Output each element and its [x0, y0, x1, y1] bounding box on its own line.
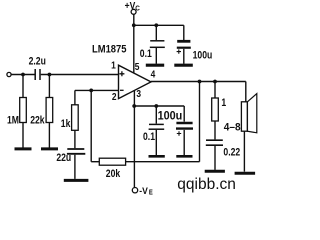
- svg-text:1: 1: [111, 60, 116, 72]
- node A junction: [21, 73, 25, 77]
- wire R 22k to ground: [48, 123, 50, 148]
- svg-text:0.22: 0.22: [223, 147, 240, 159]
- node bottom rail junction: [132, 104, 136, 108]
- wire rail to C 0.1 top: [155, 25, 157, 40]
- junction output to feedback: [198, 80, 202, 84]
- svg-text:2.2u: 2.2u: [29, 56, 46, 68]
- svg-text:-V: -V: [139, 185, 148, 196]
- wire zobel down to R 1: [214, 82, 216, 99]
- ground (speaker): [235, 172, 256, 175]
- minus mark inside op-amp: [120, 89, 124, 91]
- svg-text:2: 2: [112, 91, 117, 103]
- wire R 20k to output riser: [126, 161, 200, 163]
- ground (100u bottom): [176, 155, 192, 158]
- speaker LS 4-8 ohm: [241, 102, 247, 131]
- wire speaker to ground: [243, 131, 245, 171]
- svg-text:E: E: [149, 189, 154, 197]
- terminal -Ve: [132, 188, 137, 193]
- wire C 22u to ground: [74, 155, 76, 179]
- resistor R 1M: [20, 98, 27, 123]
- capacitor C 100u (top) plates: [177, 40, 190, 43]
- svg-text:1k: 1k: [61, 118, 71, 130]
- wire rail to C 0.1 bottom: [155, 106, 157, 124]
- wire C 0.1 bottom to ground: [155, 130, 157, 155]
- wire C 0.1 to ground: [155, 48, 157, 64]
- svg-text:100u: 100u: [193, 50, 213, 62]
- node top rail 0.1 junction: [154, 23, 158, 27]
- resistor R 1k: [72, 105, 79, 131]
- ground (22k): [41, 147, 58, 150]
- wire feedback node down: [90, 90, 92, 161]
- op-amp U1 LM1875 triangle: [119, 65, 152, 98]
- polarity + (100u top): [177, 49, 181, 53]
- wire rail to C 100u bottom: [183, 106, 185, 122]
- svg-text:20k: 20k: [106, 168, 121, 180]
- capacitor C 22u plates: [67, 148, 84, 150]
- wire input to node A: [11, 74, 34, 76]
- wire node B down to R 22k: [48, 75, 50, 98]
- ground (22u): [64, 179, 89, 182]
- wire R 1 to C 0.22: [214, 121, 216, 139]
- wire output from op-amp: [151, 81, 246, 83]
- capacitor C 100u (bottom) plates: [176, 122, 192, 124]
- wire R 1M to ground: [22, 123, 24, 148]
- wire down to R 1k: [74, 90, 76, 104]
- wire bottom rail: [134, 105, 184, 107]
- junction output to zobel: [213, 80, 217, 84]
- capacitor C 2.2u plates: [34, 69, 36, 80]
- ground (1M): [15, 147, 32, 150]
- wire pin3 down: [133, 90, 135, 187]
- wire output down to speaker: [245, 82, 247, 102]
- resistor R 22k: [46, 98, 53, 123]
- wire top rail: [134, 24, 184, 26]
- svg-text:100u: 100u: [158, 110, 183, 122]
- wire C 100u bottom to ground: [183, 130, 185, 155]
- polarity + (100u bottom): [177, 131, 181, 135]
- wire riser up to output: [199, 82, 201, 162]
- wire C 100u to ground: [183, 49, 185, 64]
- node B junction: [48, 73, 52, 77]
- terminal +Vc: [131, 9, 136, 14]
- svg-text:1M: 1M: [7, 114, 19, 126]
- ground (0.1 top): [146, 64, 164, 67]
- ground (0.22): [205, 170, 225, 173]
- wire +Vc down to rail: [133, 14, 135, 25]
- resistor R 20k: [99, 158, 125, 165]
- capacitor C 0.1 (bottom) plates: [149, 123, 164, 125]
- svg-text:+V: +V: [125, 0, 136, 12]
- wire cap to node B: [41, 74, 119, 76]
- svg-text:22u: 22u: [56, 152, 71, 164]
- svg-text:3: 3: [136, 88, 141, 100]
- node bottom rail 0.1 junction: [154, 104, 158, 108]
- svg-text:0.1: 0.1: [140, 48, 152, 60]
- svg-text:1: 1: [221, 97, 226, 109]
- wire rail to C 100u top: [183, 25, 185, 40]
- svg-text:0.1: 0.1: [143, 131, 155, 143]
- capacitor C 0.1 (top) plates: [150, 40, 164, 42]
- junction feedback node: [89, 89, 93, 93]
- svg-text:22k: 22k: [30, 115, 45, 127]
- wire node A down to R 1M: [22, 75, 24, 98]
- wire pin2 row: [75, 89, 119, 91]
- svg-text:4: 4: [151, 69, 156, 81]
- node top rail left junction: [132, 23, 136, 27]
- svg-text:4–8: 4–8: [224, 121, 241, 133]
- svg-text:LM1875: LM1875: [92, 44, 127, 56]
- input terminal: [7, 72, 11, 76]
- svg-text:C: C: [135, 5, 140, 13]
- resistor R 1: [212, 98, 219, 121]
- wire to R 20k: [91, 161, 99, 163]
- svg-text:qqibb.cn: qqibb.cn: [177, 176, 236, 193]
- ground (0.1 bottom): [149, 155, 165, 158]
- ground (100u top): [174, 64, 193, 67]
- wire R 1k to C 22u: [74, 130, 76, 148]
- svg-text:5: 5: [135, 61, 140, 73]
- capacitor C 0.22 plates: [206, 139, 223, 141]
- plus mark inside op-amp: [119, 71, 124, 76]
- wire pin5 supply drop: [133, 25, 135, 73]
- wire C 0.22 to ground: [214, 146, 216, 170]
